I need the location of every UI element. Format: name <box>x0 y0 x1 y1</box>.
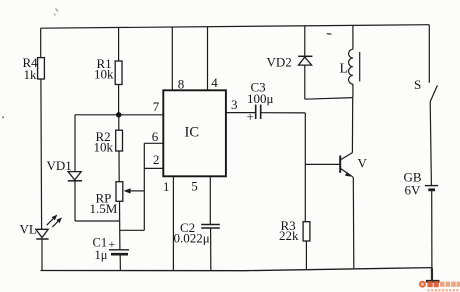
capacitor C1 <box>93 236 130 262</box>
wire collector vertical up to L bottom <box>351 98 353 153</box>
wire L column lower <box>352 84 354 98</box>
svg-text:8: 8 <box>178 77 185 92</box>
svg-text:VD1: VD1 <box>47 158 72 173</box>
svg-text:0.022μ: 0.022μ <box>174 230 210 245</box>
wire VD2 column upper <box>304 26 306 57</box>
wire pin 3 output horizontal <box>226 112 255 114</box>
wire R1 column (top rail to node A) <box>118 28 120 62</box>
svg-text:1k: 1k <box>24 67 38 82</box>
svg-text:S: S <box>414 77 421 92</box>
svg-text:5: 5 <box>191 178 198 193</box>
wire VD1 to RP column <box>75 220 119 222</box>
wiper arrow of RP <box>124 188 145 193</box>
wire pin 5 vertical to C2 <box>209 176 211 224</box>
LED VL <box>20 215 63 240</box>
svg-text:VL: VL <box>20 222 37 237</box>
wire left rail upper (top rail to R4) <box>40 28 42 58</box>
wire VD1 branch upper <box>74 115 76 172</box>
wire VD2-L bottom junction <box>305 98 353 100</box>
wire bottom rail <box>41 268 432 271</box>
svg-text:6V: 6V <box>405 182 422 197</box>
svg-text:10k: 10k <box>94 67 114 82</box>
wire pin2 horizontal <box>144 167 163 169</box>
wire battery to bottom rail <box>431 191 433 268</box>
wire pins 2-6 vertical down to C1 node <box>143 143 145 230</box>
wire RP to C1 <box>119 201 121 250</box>
svg-text:2: 2 <box>153 152 160 167</box>
potentiometer RP <box>90 182 123 216</box>
capacitor C2 <box>174 220 220 246</box>
svg-text:100μ: 100μ <box>247 91 274 106</box>
resistor R2 <box>94 129 123 155</box>
wire left rail middle (R4 to LED VL) <box>40 79 43 229</box>
svg-text:3: 3 <box>231 97 238 112</box>
stray scan mark top left <box>54 9 58 16</box>
wire pins 2-6 tie: pin6 horizontal <box>144 142 163 144</box>
wire C2 to bottom rail <box>210 229 212 271</box>
end bar at stub <box>426 280 440 283</box>
svg-text:L: L <box>340 61 349 76</box>
wire base branch horizontal <box>305 163 339 165</box>
wire R2 to RP <box>118 151 120 182</box>
watermark logo <box>419 281 460 292</box>
wire pin 1 vertical to bottom rail <box>172 176 174 270</box>
inductor L <box>340 49 360 84</box>
wire C1 to bottom rail <box>119 255 121 270</box>
wire left rail lower (VL to bottom rail) <box>41 239 43 271</box>
wire R1 to node A <box>118 85 120 115</box>
wire VD1 branch lower <box>74 181 76 221</box>
wire emitter vertical down to bottom rail <box>352 177 355 268</box>
wire stub below bottom rail <box>431 268 433 281</box>
resistor R1 <box>94 56 122 85</box>
wire C3 to node B <box>262 112 306 114</box>
wire L column upper <box>352 25 354 49</box>
svg-text:VD2: VD2 <box>267 55 292 70</box>
svg-text:1.5M: 1.5M <box>90 201 118 216</box>
svg-text:IC: IC <box>185 125 200 141</box>
wire pin 8 vertical <box>171 27 173 90</box>
transistor V <box>340 153 367 177</box>
svg-text:1μ: 1μ <box>95 248 108 262</box>
battery GB <box>404 170 439 198</box>
wire node A to R2 <box>118 115 120 130</box>
wire pin7 horizontal (VD1 branch to IC pin 7) <box>75 114 163 116</box>
wire C1 node horizontal to pins 2-6 vertical <box>120 229 145 231</box>
wire node B vertical down <box>304 113 306 222</box>
wire pin 4 vertical <box>207 27 209 91</box>
wire VD2 column lower <box>304 65 306 99</box>
diode VD2 <box>267 55 313 70</box>
svg-text:10k: 10k <box>94 140 114 155</box>
stray scan dot left edge <box>2 117 4 119</box>
stray scan dash above L <box>327 33 332 36</box>
IC U1 (timer) box <box>163 90 226 176</box>
svg-text:22k: 22k <box>279 228 299 243</box>
node A junction dot <box>116 112 121 117</box>
wire R3 to bottom rail <box>305 241 307 270</box>
svg-text:6: 6 <box>152 129 159 144</box>
svg-text:1: 1 <box>163 179 170 194</box>
svg-text:+: + <box>109 237 116 251</box>
diode VD1 <box>47 158 83 181</box>
svg-text:+: + <box>247 109 254 124</box>
wire top rail <box>41 25 430 29</box>
capacitor C3 <box>247 80 274 124</box>
svg-text:7: 7 <box>153 99 160 114</box>
resistor R4 <box>23 55 45 82</box>
wire right rail upper (top rail to switch) <box>428 25 430 83</box>
resistor R3 <box>279 218 310 243</box>
svg-text:4: 4 <box>211 75 218 90</box>
switch S <box>414 77 437 102</box>
svg-text:V: V <box>358 156 368 171</box>
wire switch to battery <box>430 102 431 186</box>
